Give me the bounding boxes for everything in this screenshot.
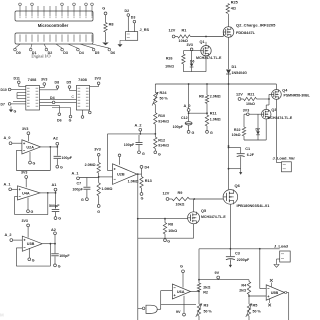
svg-text:C1: C1 bbox=[245, 147, 250, 151]
node G below U2A bbox=[29, 152, 36, 165]
svg-text:M: M bbox=[0, 313, 4, 318]
svg-text:G: G bbox=[58, 216, 61, 220]
mosfet Q1 bbox=[196, 40, 222, 60]
resistor R8 10k pulldown bbox=[104, 15, 114, 42]
svg-text:A_1: A_1 bbox=[4, 182, 11, 186]
svg-text:2kΩ: 2kΩ bbox=[203, 286, 210, 290]
resistor R22 10k bbox=[232, 114, 246, 140]
node G below A2 cap bbox=[56, 165, 63, 169]
potentiometer R24 bbox=[152, 84, 168, 106]
resistor R9 10k bbox=[169, 197, 223, 206]
resistor R8 2.0M bbox=[199, 84, 221, 115]
ground arrow below C1 bbox=[239, 169, 242, 175]
mosfet Q6 IPB180N03S4L-01 bbox=[223, 183, 270, 208]
svg-text:G: G bbox=[69, 119, 72, 123]
svg-text:R3: R3 bbox=[204, 303, 209, 307]
node A2 output terminal U3B bbox=[51, 228, 56, 235]
svg-text:10kΩ: 10kΩ bbox=[176, 203, 185, 207]
node 3V3 IC2 bbox=[90, 77, 101, 87]
svg-text:500pF: 500pF bbox=[49, 204, 60, 208]
svg-text:R9: R9 bbox=[178, 191, 183, 195]
wire U5B output bbox=[285, 291, 289, 320]
svg-text:3V3: 3V3 bbox=[243, 109, 249, 113]
svg-text:J_RS: J_RS bbox=[140, 28, 150, 32]
svg-text:50 %: 50 % bbox=[160, 97, 169, 101]
svg-text:MCH3474-TL-E: MCH3474-TL-E bbox=[268, 116, 293, 120]
svg-text:A_1: A_1 bbox=[72, 171, 79, 175]
svg-text:100pF: 100pF bbox=[124, 143, 135, 147]
svg-text:G: G bbox=[14, 110, 17, 114]
node A1 output terminal bbox=[52, 183, 57, 193]
potentiometer R5 bbox=[246, 296, 262, 320]
svg-text:D0: D0 bbox=[16, 51, 21, 55]
svg-text:914kΩ: 914kΩ bbox=[158, 119, 169, 123]
node G below R11 bbox=[206, 131, 213, 135]
node D5 terminal bbox=[67, 80, 77, 90]
node D4 terminal bbox=[50, 96, 55, 104]
node 9V below U6A bbox=[176, 296, 186, 316]
svg-text:U6A: U6A bbox=[177, 290, 185, 294]
svg-text:2200μF: 2200μF bbox=[237, 258, 250, 262]
digital I/O header box bbox=[14, 33, 115, 59]
node G terminal bbox=[102, 7, 107, 15]
wire D1 to main rail junction bbox=[228, 74, 230, 148]
resistor R11 1.0M bbox=[205, 112, 220, 131]
svg-text:MCH3474-TL-E: MCH3474-TL-E bbox=[201, 215, 226, 219]
wire J_Load junction to U5B bbox=[260, 249, 266, 289]
svg-text:R26: R26 bbox=[166, 56, 173, 60]
node D11 terminal bbox=[14, 76, 26, 86]
svg-text:9V: 9V bbox=[215, 271, 220, 275]
opamp U6A bbox=[172, 284, 190, 299]
capacitor 500pF on A1 bbox=[49, 193, 60, 217]
svg-text:6.2F: 6.2F bbox=[247, 153, 255, 157]
svg-text:C3: C3 bbox=[235, 251, 240, 255]
svg-text:3V3: 3V3 bbox=[22, 127, 28, 131]
svg-text:MCH3474-TL-E: MCH3474-TL-E bbox=[196, 56, 222, 60]
svg-text:3V3: 3V3 bbox=[22, 219, 28, 223]
node G below R12 bbox=[154, 151, 161, 156]
potentiometer R3 bbox=[196, 292, 213, 320]
node A_0 input terminal bbox=[4, 136, 22, 144]
svg-text:2kΩ: 2kΩ bbox=[239, 289, 246, 293]
svg-text:10kΩ: 10kΩ bbox=[165, 65, 174, 69]
svg-text:3V3: 3V3 bbox=[95, 77, 101, 81]
svg-text:R8: R8 bbox=[109, 23, 114, 27]
wire 9V rail bbox=[198, 279, 249, 281]
capacitor 100pF on A_2 node bbox=[124, 134, 143, 151]
wire Q5 source return bbox=[138, 224, 194, 238]
mosfet Q5 MCH3474 bbox=[188, 199, 227, 224]
wire bottom load rail bbox=[199, 248, 280, 250]
node G below U3B cap bbox=[54, 264, 61, 268]
svg-text:D2: D2 bbox=[125, 9, 130, 13]
svg-text:D6: D6 bbox=[111, 51, 116, 55]
wire U3B output bbox=[42, 235, 56, 245]
capacitor C7 100pF bbox=[72, 178, 90, 198]
node 12V terminal R21 bbox=[236, 92, 254, 100]
mosfet Q4 PSMNR58-30BL bbox=[269, 84, 311, 99]
wire Q6 source down bbox=[229, 204, 231, 249]
wires left of IC U8 bbox=[11, 90, 26, 104]
node A_1 terminal U2B bbox=[72, 171, 113, 179]
node 12V terminal R9 bbox=[163, 191, 183, 200]
node A_2 input terminal bbox=[5, 233, 23, 241]
svg-text:G: G bbox=[167, 239, 170, 243]
svg-text:3V3: 3V3 bbox=[41, 77, 47, 81]
node G below A1 cap bbox=[54, 216, 61, 220]
resistor R12 914k bbox=[154, 137, 170, 151]
svg-text:1.0MΩ: 1.0MΩ bbox=[210, 118, 221, 122]
node G below U3B bbox=[28, 248, 35, 262]
resistor R1 10k bbox=[175, 32, 223, 43]
svg-text:G: G bbox=[210, 131, 213, 135]
svg-text:R2: R2 bbox=[203, 291, 208, 295]
wire U4A feedback loop bbox=[15, 192, 49, 215]
svg-text:12V: 12V bbox=[169, 29, 176, 33]
svg-text:G: G bbox=[141, 196, 144, 200]
svg-text:D5: D5 bbox=[95, 51, 100, 55]
svg-text:D6: D6 bbox=[190, 59, 194, 63]
svg-text:914kΩ: 914kΩ bbox=[158, 144, 169, 148]
opamp U2A bbox=[22, 140, 41, 154]
svg-text:1.0MΩ: 1.0MΩ bbox=[102, 187, 113, 191]
svg-text:3V3: 3V3 bbox=[187, 43, 193, 47]
svg-text:G: G bbox=[33, 161, 36, 165]
svg-text:A1: A1 bbox=[52, 183, 57, 187]
node 3V3 above U2A bbox=[22, 127, 30, 142]
svg-text:Digital I/O: Digital I/O bbox=[31, 54, 50, 59]
wires between ICs bbox=[40, 99, 77, 105]
no-connect X above U5B bbox=[270, 279, 273, 287]
connector J_Load_Var bbox=[273, 155, 296, 172]
ground G IC1 bbox=[9, 107, 17, 114]
wire U3B feedback loop bbox=[16, 243, 51, 266]
svg-text:PSMNR58-30BL: PSMNR58-30BL bbox=[284, 94, 311, 98]
svg-text:R21: R21 bbox=[248, 92, 255, 96]
node 3V3 supply U2B bbox=[118, 154, 121, 165]
svg-text:R12: R12 bbox=[158, 139, 165, 143]
opamp U3B bbox=[22, 236, 42, 251]
capacitor 100uF on A2 bbox=[54, 147, 73, 165]
microcontroller box U7 bbox=[15, 3, 93, 28]
svg-text:D8: D8 bbox=[55, 80, 60, 84]
node A_1 input terminal bbox=[4, 182, 18, 190]
wire A_2 line down to U2B bbox=[108, 134, 113, 171]
svg-text:D4: D4 bbox=[79, 51, 84, 55]
svg-text:1N5404G: 1N5404G bbox=[232, 71, 248, 75]
wire Q2 source down to diode D1 bbox=[228, 37, 230, 69]
node 9V terminal bbox=[215, 271, 220, 280]
diode D6 gate clamp bbox=[190, 51, 195, 72]
svg-text:D3: D3 bbox=[131, 16, 136, 20]
node D6 terminal below bbox=[57, 105, 62, 122]
node G below U4A bbox=[27, 198, 34, 215]
resistor R4 2k bbox=[239, 280, 250, 295]
IC2 bottom pin terminals bbox=[81, 110, 91, 118]
svg-text:100pF: 100pF bbox=[72, 188, 83, 192]
svg-text:Q4: Q4 bbox=[282, 89, 288, 93]
svg-text:R8: R8 bbox=[168, 223, 173, 227]
svg-text:D4: D4 bbox=[145, 165, 150, 169]
resistor R8b 10k gate pulldown bbox=[163, 219, 177, 240]
svg-text:D4: D4 bbox=[50, 96, 55, 100]
svg-text:G: G bbox=[60, 166, 63, 170]
svg-text:IPB180N03S4L-01: IPB180N03S4L-01 bbox=[237, 203, 271, 208]
wire R4 to U5B plus input bbox=[248, 295, 266, 297]
svg-text:Q5: Q5 bbox=[201, 209, 206, 213]
node G below cap bbox=[138, 151, 145, 156]
svg-text:A_2: A_2 bbox=[5, 233, 12, 237]
wire battery sense rail bbox=[155, 83, 276, 85]
svg-text:A2: A2 bbox=[53, 137, 58, 141]
svg-text:D5: D5 bbox=[67, 80, 72, 84]
svg-text:G: G bbox=[32, 258, 35, 262]
wire to R3 wiper bbox=[161, 303, 196, 305]
svg-text:J_Load: J_Load bbox=[274, 243, 289, 248]
resistor R26 10k bbox=[165, 51, 185, 72]
wire Q5 gate line bbox=[138, 218, 188, 220]
resistor R2 2k bbox=[197, 283, 210, 295]
svg-text:G: G bbox=[97, 210, 100, 214]
svg-text:D3: D3 bbox=[63, 51, 68, 55]
svg-text:R24: R24 bbox=[160, 91, 168, 95]
svg-text:1.0MΩ: 1.0MΩ bbox=[128, 180, 139, 184]
wire U2A output bbox=[41, 146, 59, 148]
diode D1 1N5404G bbox=[226, 65, 247, 75]
resistor R21 10k bbox=[241, 97, 270, 106]
wire Q3 bias loop bbox=[244, 119, 266, 140]
svg-text:R13: R13 bbox=[145, 179, 152, 183]
ground below R8 bbox=[102, 43, 109, 46]
ground below C3 bbox=[229, 262, 232, 268]
nand-gate U10 bbox=[138, 305, 161, 313]
resistor 2.0M at A_1 node bbox=[85, 156, 101, 183]
resistor 1.0M to ground bbox=[97, 183, 112, 205]
faint edge artifact bbox=[0, 313, 4, 318]
node D7 terminal bbox=[1, 103, 11, 107]
svg-text:D10: D10 bbox=[1, 88, 7, 92]
svg-text:100μF: 100μF bbox=[62, 156, 73, 160]
wire gate output to U6A input bbox=[161, 291, 173, 309]
svg-text:A_2: A_2 bbox=[135, 123, 142, 127]
ground below J_Load bbox=[274, 259, 280, 267]
svg-text:A_0: A_0 bbox=[4, 136, 11, 140]
node A_0 tap bbox=[184, 84, 208, 114]
svg-text:Q2_Charge_IRF3205: Q2_Charge_IRF3205 bbox=[236, 23, 276, 28]
capacitor C12 100pF bbox=[173, 113, 192, 130]
svg-text:FDD8447L: FDD8447L bbox=[236, 30, 256, 35]
svg-text:12V: 12V bbox=[163, 192, 170, 196]
IC U9 7408 gate bbox=[76, 77, 89, 110]
svg-text:U2B: U2B bbox=[117, 173, 125, 177]
svg-text:3V3: 3V3 bbox=[21, 170, 27, 174]
node D4 terminal U2B bbox=[140, 165, 149, 174]
svg-text:U5B: U5B bbox=[271, 291, 279, 295]
connector J_Load bbox=[274, 243, 290, 262]
svg-text:R5: R5 bbox=[253, 303, 258, 307]
wire main vertical to Q6 bbox=[228, 148, 241, 189]
svg-text:G: G bbox=[58, 264, 61, 268]
svg-text:J_Load_Var: J_Load_Var bbox=[273, 155, 296, 160]
svg-text:G: G bbox=[81, 198, 84, 202]
wire R10 to R12 junction bbox=[154, 124, 156, 137]
node A2 output terminal bbox=[53, 137, 59, 147]
resistor R25 4ohm bbox=[226, 0, 238, 26]
svg-text:D11: D11 bbox=[14, 76, 20, 80]
svg-text:7408: 7408 bbox=[28, 77, 37, 82]
svg-text:10kΩ: 10kΩ bbox=[246, 102, 255, 106]
svg-text:Microcontroller: Microcontroller bbox=[38, 23, 69, 28]
IC U8 7408 gate bbox=[26, 77, 40, 110]
svg-text:7408: 7408 bbox=[78, 77, 87, 82]
wire U2A feedback loop bbox=[16, 146, 51, 171]
svg-text:100pF: 100pF bbox=[59, 254, 70, 258]
no-connect X below U5B bbox=[268, 298, 271, 306]
capacitor C1 6.2F bbox=[228, 147, 255, 169]
node D2 terminal bbox=[125, 9, 130, 16]
svg-text:D7: D7 bbox=[1, 103, 5, 107]
wire D2 to J_RS bbox=[127, 16, 129, 31]
wire Q1 bias loop bottom bbox=[183, 56, 206, 72]
opamp U4A bbox=[18, 186, 41, 200]
wire long feedback vertical bbox=[137, 173, 139, 320]
node G below R13 bbox=[140, 193, 144, 201]
node A_2 tap terminal bbox=[108, 123, 156, 135]
connector J_RS bbox=[126, 28, 150, 40]
svg-text:R1: R1 bbox=[182, 29, 187, 33]
svg-text:50 %: 50 % bbox=[204, 309, 213, 313]
node 3V3 IC1 bbox=[40, 77, 48, 87]
svg-text:100pF: 100pF bbox=[173, 125, 184, 129]
opamp U2B bbox=[113, 164, 138, 185]
svg-text:Q1: Q1 bbox=[200, 40, 205, 44]
node 3V3 above U3B bbox=[22, 219, 30, 238]
diode D7 bbox=[256, 114, 260, 140]
svg-text:12V: 12V bbox=[236, 92, 243, 96]
opamp U5B bbox=[266, 285, 284, 300]
svg-text:U2A: U2A bbox=[26, 145, 34, 149]
svg-text:R11: R11 bbox=[210, 112, 217, 116]
svg-text:U4A: U4A bbox=[22, 191, 30, 195]
node G below C12 bbox=[187, 131, 194, 135]
svg-text:R25: R25 bbox=[231, 0, 238, 4]
svg-text:4Ω: 4Ω bbox=[231, 7, 236, 11]
svg-text:C12: C12 bbox=[181, 116, 188, 120]
mosfet Q3 MCH3474 bbox=[261, 99, 292, 120]
svg-text:U3B: U3B bbox=[27, 242, 35, 246]
ground at J_RS bbox=[118, 40, 126, 47]
node 3V3 Q3 gate bbox=[243, 109, 262, 116]
resistor R10 914k bbox=[154, 105, 170, 125]
svg-text:D1: D1 bbox=[232, 65, 237, 69]
wire U2B output bbox=[137, 173, 142, 175]
svg-text:A2: A2 bbox=[51, 228, 56, 232]
node D3 terminal bbox=[131, 16, 136, 23]
svg-text:10kΩ: 10kΩ bbox=[168, 229, 177, 233]
svg-text:2.0MΩ: 2.0MΩ bbox=[210, 95, 221, 99]
node G below 1.0M bbox=[97, 205, 100, 214]
node C mark bbox=[72, 95, 75, 99]
wire U4A output bbox=[40, 192, 56, 194]
svg-text:R8: R8 bbox=[199, 95, 204, 99]
node G below R8b bbox=[164, 239, 171, 244]
node 3V3 above U4A bbox=[21, 170, 28, 187]
svg-text:2.0MΩ: 2.0MΩ bbox=[85, 163, 96, 167]
svg-text:C7: C7 bbox=[77, 181, 82, 185]
wire Q4 source to J_Load_Var bbox=[276, 99, 281, 162]
mosfet Q2 charge switch bbox=[223, 23, 276, 38]
node G terminal below ICs bbox=[52, 108, 72, 123]
node D8 terminal bbox=[40, 80, 60, 90]
node G below C7 bbox=[81, 198, 88, 202]
capacitor C3 2200uF bbox=[226, 249, 250, 262]
svg-text:10kΩ: 10kΩ bbox=[232, 133, 241, 137]
svg-text:3V3: 3V3 bbox=[94, 148, 100, 152]
svg-text:G: G bbox=[31, 210, 34, 214]
svg-text:Q6: Q6 bbox=[235, 183, 241, 188]
wire D3 to J_RS bbox=[133, 23, 135, 32]
node 3V3 pullup for 2.0M bbox=[94, 148, 100, 157]
svg-text:A_0: A_0 bbox=[184, 104, 191, 108]
node 12V terminal R1 bbox=[169, 29, 187, 38]
svg-text:G: G bbox=[102, 7, 105, 11]
node D10 terminal bbox=[1, 88, 11, 92]
capacitor 100pF on U3B output bbox=[51, 244, 70, 264]
resistor R13 1.0M bbox=[128, 174, 152, 193]
wire Q1 gate network bbox=[183, 50, 200, 52]
svg-text:G: G bbox=[180, 265, 183, 269]
svg-text:R22: R22 bbox=[234, 128, 241, 132]
node G above U6A bbox=[180, 265, 184, 288]
wire rail to R2 node bbox=[198, 249, 200, 283]
svg-text:Q3: Q3 bbox=[271, 108, 276, 112]
svg-text:D6: D6 bbox=[57, 118, 62, 122]
svg-text:G: G bbox=[192, 131, 195, 135]
svg-text:R10: R10 bbox=[158, 114, 165, 118]
wire U6A output junction bbox=[191, 291, 200, 293]
svg-text:50 %: 50 % bbox=[253, 310, 262, 314]
svg-text:G: G bbox=[142, 152, 145, 156]
svg-text:G: G bbox=[158, 152, 161, 156]
svg-text:9V: 9V bbox=[176, 310, 181, 314]
node 3V3 for Q1 gate bbox=[187, 43, 193, 51]
